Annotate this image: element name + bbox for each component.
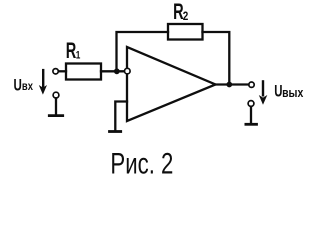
svg-text:2: 2 — [183, 10, 189, 23]
terminal input bottom — [53, 92, 59, 98]
resistor R2 — [168, 24, 203, 40]
terminal input top — [53, 69, 58, 74]
terminal output lower — [248, 101, 254, 107]
terminal output — [249, 82, 254, 87]
wire input bottom stem — [55, 98, 57, 114]
svg-text:U: U — [14, 76, 22, 95]
svg-text:Рис. 2: Рис. 2 — [110, 146, 173, 180]
svg-text:R: R — [66, 39, 77, 64]
node output junction — [226, 82, 232, 88]
wire non-inverting input to ground — [115, 102, 127, 131]
ground bar output — [246, 123, 257, 126]
wire output apex to terminal — [216, 83, 249, 85]
svg-text:вх: вх — [22, 80, 33, 93]
ground bar input — [49, 114, 62, 117]
arrow output voltage — [259, 80, 268, 105]
wire input terminal to R1 — [59, 70, 66, 72]
inverting input bubble — [125, 68, 131, 74]
op-amp U1 triangle — [127, 47, 216, 121]
wire R1 to op-amp inverting input — [101, 70, 125, 72]
svg-text:1: 1 — [76, 49, 81, 61]
wire R2 to output node — [203, 32, 230, 85]
node input junction — [114, 68, 120, 74]
ground bar non-inverting — [110, 130, 121, 133]
resistor R1 — [66, 64, 101, 80]
svg-text:вых: вых — [282, 87, 304, 100]
arrow input voltage — [39, 69, 47, 95]
wire lower output stem — [250, 107, 252, 124]
wire feedback up and across to R2 — [117, 32, 169, 71]
